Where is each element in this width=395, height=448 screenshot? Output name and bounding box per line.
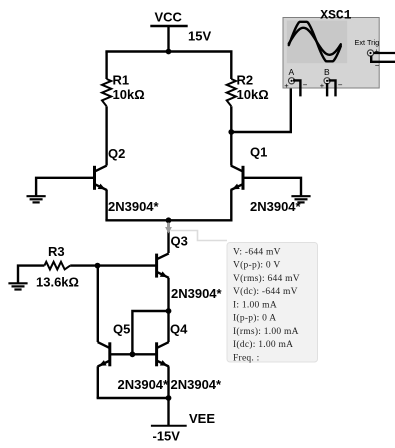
wire to scope A [231,83,290,132]
oscilloscope label [320,8,351,23]
svg-text:−: − [303,81,308,90]
svg-text:2N3904*: 2N3904* [108,199,160,214]
svg-text:15V: 15V [188,29,211,44]
svg-text:10kΩ: 10kΩ [237,87,269,102]
svg-text:I(p-p): 0 A: I(p-p): 0 A [233,313,276,324]
svg-text:I(dc): 1.00 mA: I(dc): 1.00 mA [233,339,293,350]
wire R3 right [70,264,97,266]
svg-text:V(p-p): 0 V: V(p-p): 0 V [233,260,280,271]
wire Q3 emitter to Q4 [167,311,169,342]
wire A minus stub [293,80,300,96]
svg-text:B: B [324,67,330,77]
wire ext trig minus [371,56,395,71]
tooltip measurement box [227,243,318,364]
oscilloscope terminal B [320,67,343,90]
svg-text:+: + [375,47,380,56]
transistor Q3 [157,234,223,302]
power VCC [150,10,211,44]
transistor Q2 [95,146,160,214]
resistor R1 [102,73,145,107]
svg-text:R3: R3 [48,244,65,259]
wire R2 to Q1 [230,106,232,165]
wire Q1 emitter [230,190,232,221]
junction emitter node [166,217,172,223]
probe leader line [171,231,228,241]
svg-text:+: + [320,81,325,90]
svg-text:V: -644 mV: V: -644 mV [233,247,281,257]
svg-text:10kΩ: 10kΩ [113,87,145,102]
svg-text:Q5: Q5 [113,322,130,337]
svg-text:Q1: Q1 [250,145,267,160]
svg-text:Freq. :: Freq. : [233,353,260,363]
wire Q5 emitter [97,366,99,398]
oscilloscope ext trig terminal [367,47,379,57]
transistor Q1 [231,145,302,214]
svg-text:2N3904*: 2N3904* [171,286,223,301]
wire top rail [105,50,232,52]
wire emitter bus [105,219,232,221]
oscilloscope Ext Trig label [355,38,380,47]
wire R1 to Q2 [105,106,107,165]
svg-text:I(rms): 1.00 mA: I(rms): 1.00 mA [233,326,299,337]
junction R3 node [95,263,101,269]
svg-text:I: 1.00 mA: I: 1.00 mA [233,300,277,310]
junction bottom node [166,395,172,401]
svg-text:R1: R1 [113,73,130,88]
wire Q2 base [36,178,94,196]
svg-text:-15V: -15V [153,428,181,443]
svg-text:13.6kΩ: 13.6kΩ [36,275,79,290]
wire shared base [110,353,157,355]
junction scope tap [228,129,234,135]
wire VCC stub [167,26,169,52]
transistor Q4 [157,322,222,393]
svg-text:Q2: Q2 [108,146,125,161]
svg-text:VEE: VEE [189,411,215,426]
svg-text:Q3: Q3 [171,234,188,249]
wire Q4 emitter [167,366,169,398]
resistor R3 [36,244,79,290]
power VEE [151,411,215,443]
svg-text:−: − [375,61,380,70]
svg-text:+: + [284,81,289,90]
wire R3 left [18,266,44,284]
ground at R3 [8,283,27,289]
wire ext trig plus [374,52,395,54]
svg-text:2N3904*: 2N3904* [118,377,170,392]
svg-text:2N3904*: 2N3904* [250,199,302,214]
wire bottom bus [97,397,169,399]
wire Q1 base [243,178,301,196]
wire Q3 collector [167,220,169,253]
junction mirror tap [166,308,172,314]
wire B minus stub [329,80,336,96]
wire B plus stub [326,83,328,96]
wire mirror link [132,311,168,354]
junction base node [130,351,136,357]
svg-text:−: − [338,81,343,90]
svg-text:Q4: Q4 [170,322,188,337]
svg-text:2N3904*: 2N3904* [171,377,223,392]
svg-text:V(rms): 644 mV: V(rms): 644 mV [233,273,300,284]
wire R3 to Q5 collector [97,266,99,342]
transistor Q5 [98,322,169,393]
svg-text:VCC: VCC [155,10,183,25]
wire Q2 emitter [105,190,107,221]
wire VEE stub [167,398,169,426]
wire Q3 base [98,264,157,266]
resistor R2 [227,73,269,107]
svg-text:V(dc): -644 mV: V(dc): -644 mV [233,286,298,297]
junction top node [166,49,172,55]
wire R2 top [230,52,232,80]
wire R1 top [105,52,107,80]
probe arrow [165,223,172,234]
wire Q3 emitter [167,278,169,311]
ground at Q2 base [27,196,46,202]
svg-text:XSC1: XSC1 [320,8,351,23]
svg-text:A: A [289,67,295,77]
oscilloscope XSC1 body [283,18,379,89]
oscilloscope terminal A [284,67,307,90]
svg-text:R2: R2 [237,73,254,88]
ground at Q1 base [291,196,310,202]
